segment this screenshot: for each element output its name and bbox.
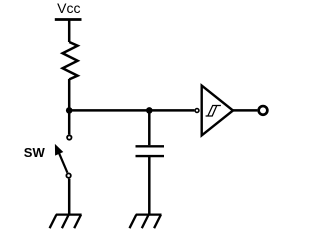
svg-text:SW: SW xyxy=(24,145,46,160)
svg-text:Vcc: Vcc xyxy=(57,0,80,16)
